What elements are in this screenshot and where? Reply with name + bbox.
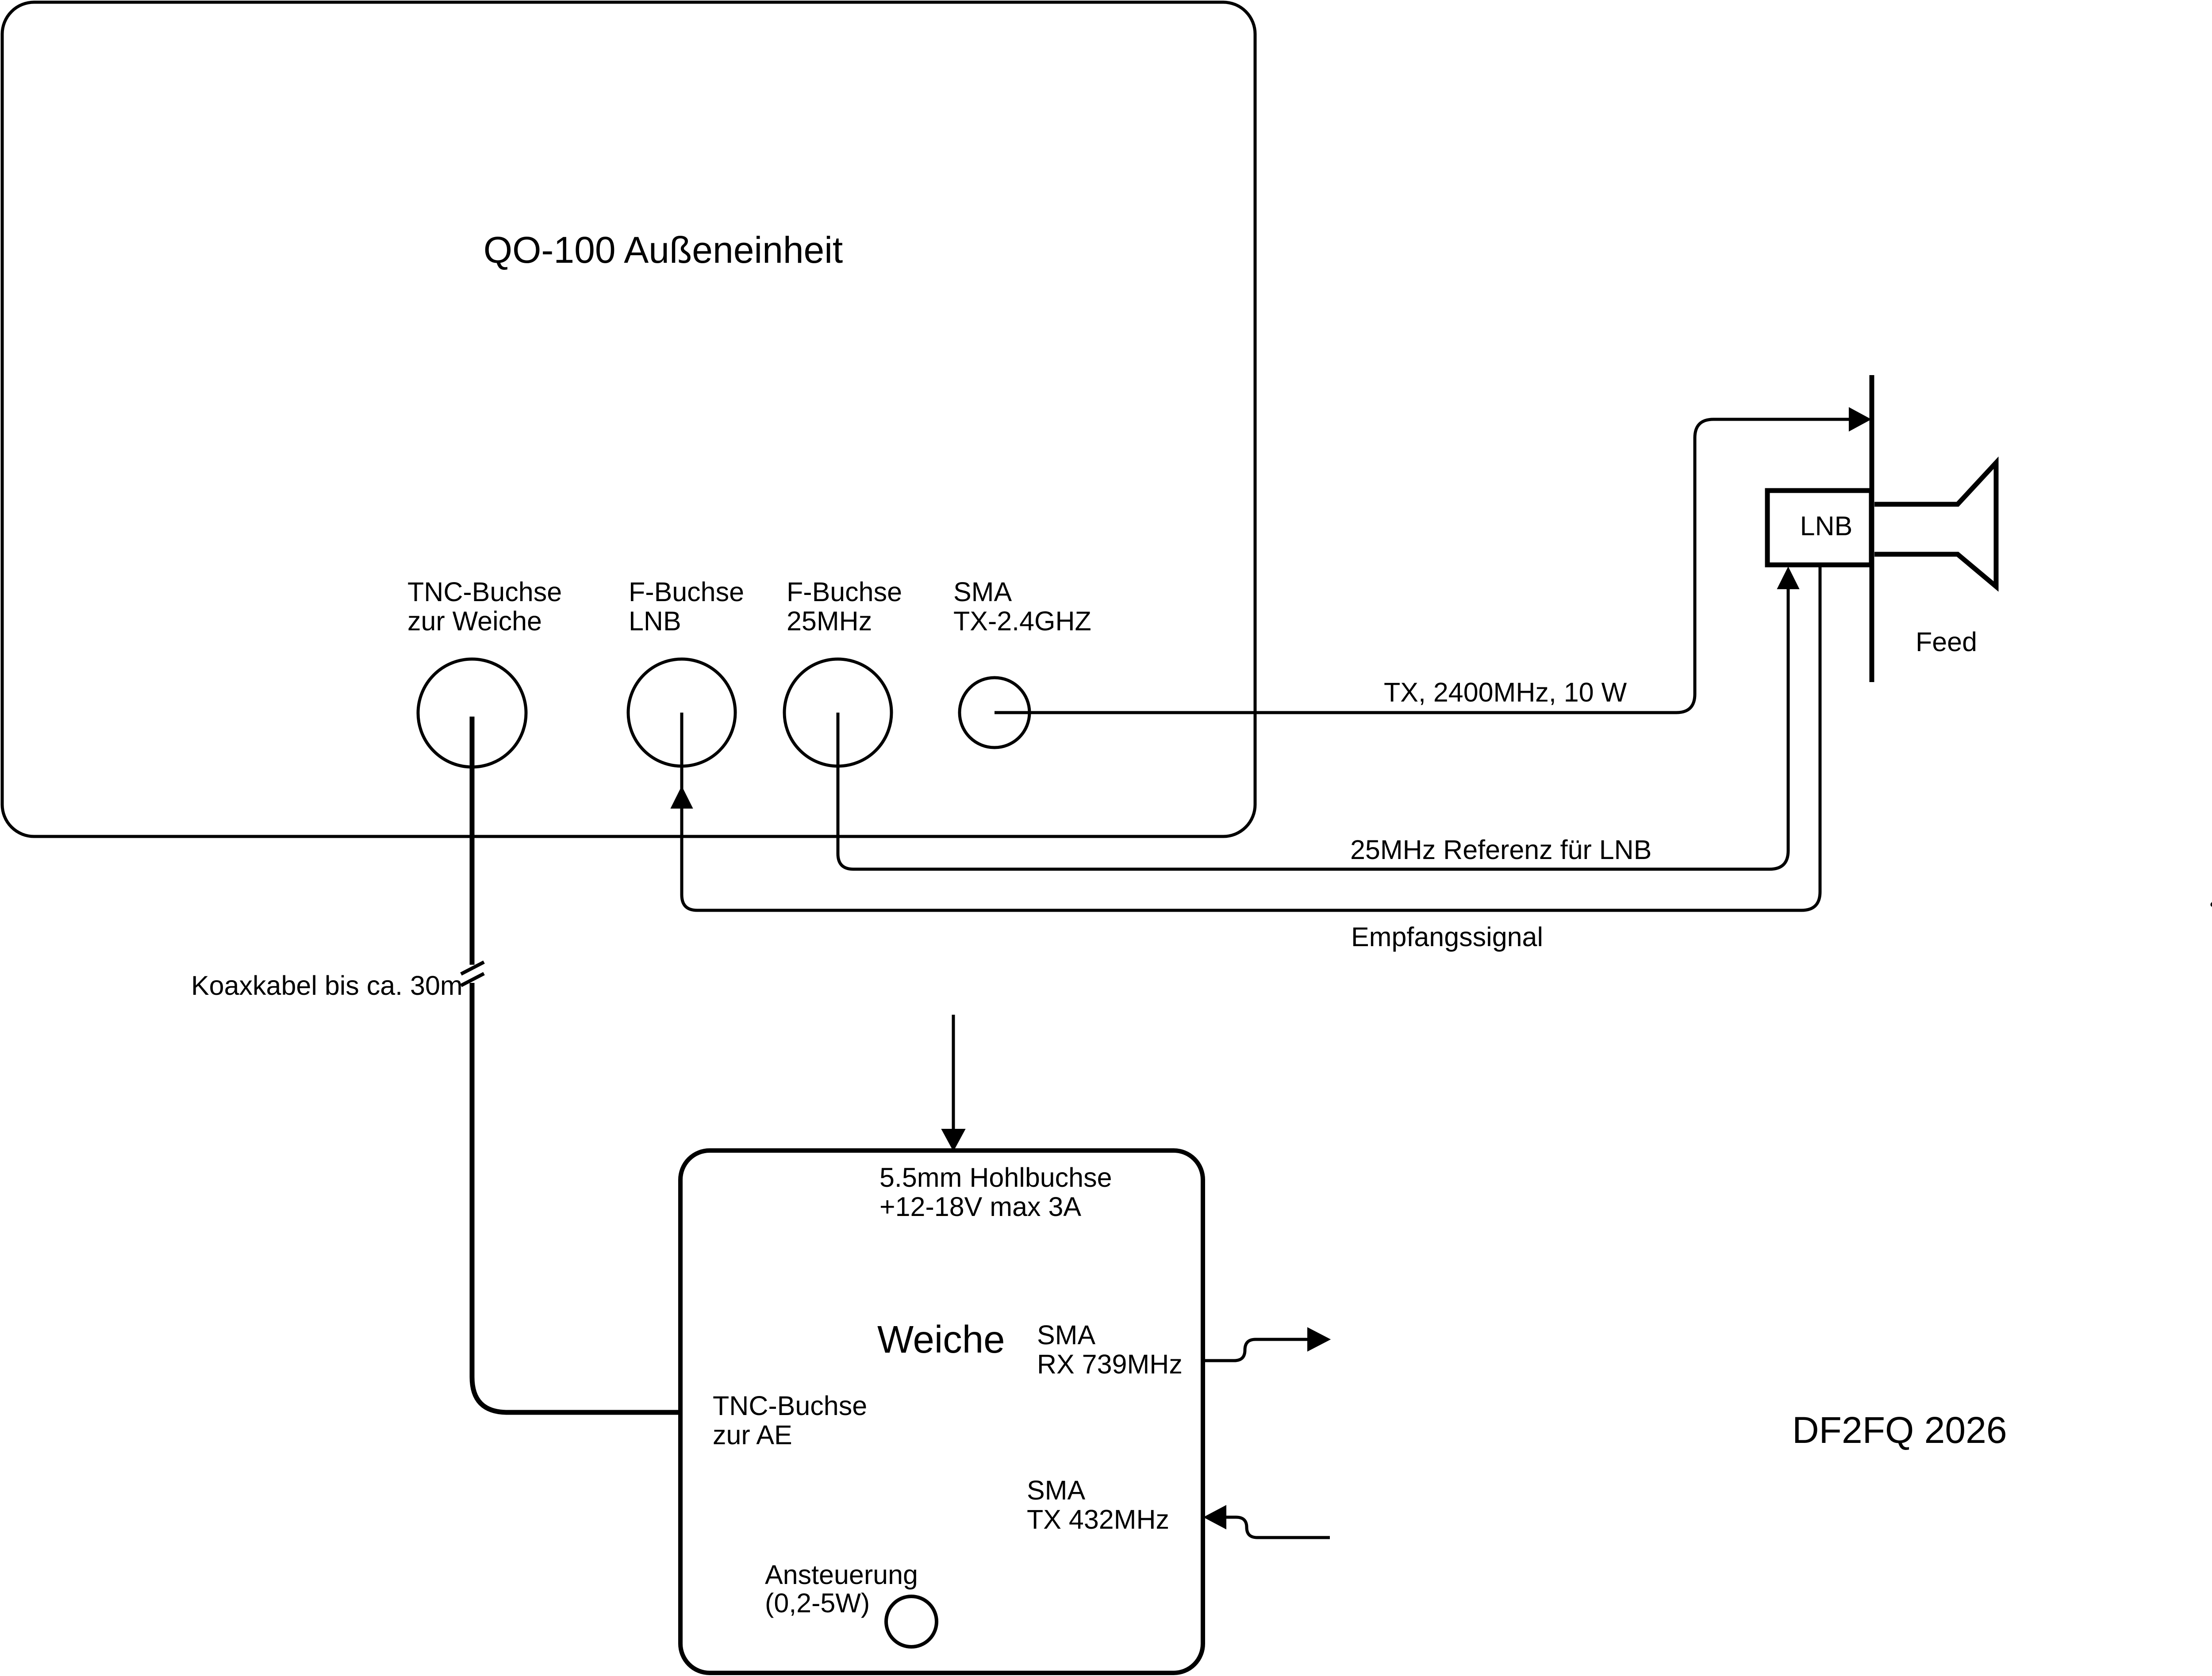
svg-text:TX 432MHz: TX 432MHz [1027, 1504, 1169, 1534]
svg-text:LNB: LNB [1800, 511, 1853, 541]
svg-text:Empfangssignal: Empfangssignal [1351, 922, 1543, 952]
svg-text:5.5mm Hohlbuchse: 5.5mm Hohlbuchse [879, 1162, 1112, 1193]
svg-text:25MHz: 25MHz [787, 606, 872, 636]
arrowhead right into feed mast [1849, 408, 1870, 431]
wire: TX 2400MHz (SMA to feed) [995, 419, 1849, 713]
svg-text:SMA: SMA [1037, 1320, 1096, 1350]
feed horn [1874, 463, 1996, 587]
svg-text:TNC-Buchse: TNC-Buchse [713, 1391, 867, 1421]
wire: 25MHz Referenz (F-Buchse 25MHz to LNB) [838, 589, 1788, 869]
svg-text:F-Buchse: F-Buchse [629, 577, 744, 607]
svg-text:TX-2.4GHZ: TX-2.4GHZ [953, 606, 1091, 636]
connector circle SMA [960, 678, 1029, 748]
wire: Empfangssignal (LNB to F-Buchse LNB) [682, 566, 1820, 910]
Weiche box [680, 1151, 1203, 1673]
svg-text:F-Buchse: F-Buchse [787, 577, 902, 607]
svg-text:+12-18V max 3A: +12-18V max 3A [879, 1192, 1081, 1222]
power wire into Weiche [952, 1015, 955, 1129]
svg-text:RX 739MHz: RX 739MHz [1037, 1349, 1183, 1379]
wire stub inside F-Buchse 25MHz circle [837, 713, 840, 767]
wire stub inside TNC circle [470, 717, 475, 767]
svg-text:Ansteuerung: Ansteuerung [765, 1560, 918, 1590]
connector circle Ansteuerung [886, 1596, 937, 1647]
svg-text:Weiche: Weiche [877, 1318, 1005, 1361]
svg-text:Feed: Feed [1916, 627, 1977, 657]
wire: RX 739MHz out of Weiche [1203, 1339, 1308, 1361]
connector circle F-Buchse 25MHz [784, 659, 891, 766]
wire stub inside SMA circle [995, 711, 1030, 714]
svg-text:zur AE: zur AE [713, 1420, 792, 1450]
cable break symbol on koax [461, 962, 484, 986]
svg-text:zur Weiche: zur Weiche [407, 606, 542, 636]
svg-text:(0,2-5W): (0,2-5W) [765, 1588, 870, 1618]
svg-text:TX, 2400MHz, 10 W: TX, 2400MHz, 10 W [1384, 677, 1627, 707]
arrowhead left TX432 [1204, 1506, 1226, 1529]
arrowhead up into F-Buchse LNB [671, 787, 692, 808]
enclosure box QO-100 Außeneinheit [2, 2, 1255, 836]
arrowhead up into LNB bottom [1778, 568, 1799, 589]
arrowhead right RX [1308, 1328, 1330, 1351]
svg-text:Koaxkabel bis ca. 30m: Koaxkabel bis ca. 30m [191, 970, 463, 1001]
wire: TX 432MHz into Weiche [1226, 1517, 1330, 1538]
svg-text:SMA: SMA [1027, 1475, 1086, 1505]
svg-text:DF2FQ 2026: DF2FQ 2026 [1792, 1409, 2007, 1451]
svg-text:25MHz Referenz für LNB: 25MHz Referenz für LNB [1350, 835, 1651, 865]
arrowhead down into Weiche top [942, 1129, 965, 1151]
wire: koax cable TNC-Buchse to Weiche [472, 717, 680, 1412]
feed mast [1870, 375, 1874, 682]
connector circle TNC-Buchse [418, 659, 526, 767]
LNB box [1767, 491, 1871, 565]
connector circle F-Buchse LNB [628, 659, 735, 766]
svg-text:QO-100 Außeneinheit: QO-100 Außeneinheit [484, 229, 843, 271]
wire stub inside F-Buchse LNB circle [680, 713, 684, 767]
svg-text:TNC-Buchse: TNC-Buchse [407, 577, 562, 607]
svg-text:LNB: LNB [629, 606, 681, 636]
svg-text:SMA: SMA [953, 577, 1012, 607]
